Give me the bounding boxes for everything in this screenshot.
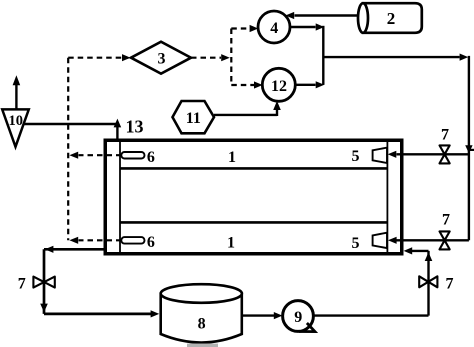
svg-text:8: 8 [198, 316, 206, 333]
arrowhead left at vessel outlet corner [45, 246, 54, 253]
svg-text:1: 1 [228, 149, 236, 166]
port 6 oval (top) [121, 152, 144, 159]
wire: right riser vertical [468, 56, 470, 240]
svg-text:5: 5 [352, 235, 360, 252]
wire: hexagon 11 to circle 12 [214, 110, 277, 117]
arrowhead right into circle 12 [254, 81, 263, 88]
dashed signal line: top port 6 to trunk [79, 154, 122, 156]
wire: manifold to right riser [323, 56, 459, 58]
svg-text:9: 9 [294, 309, 302, 326]
wire: cylinder 2 to circle 4 [295, 14, 359, 16]
svg-text:7: 7 [442, 212, 450, 229]
arrowhead right into pump 9 [274, 312, 283, 319]
arrowhead up on discharge riser [425, 252, 433, 261]
channel divider line (bottom channel top) [120, 221, 387, 224]
wire: pump discharge riser into vessel bottom right [408, 251, 429, 316]
svg-text:7: 7 [18, 276, 26, 293]
arrowhead right at riser top [460, 54, 469, 61]
controller circle 12 [262, 68, 295, 101]
svg-text:2: 2 [387, 9, 396, 28]
dashed signal line: diamond 3 to controller trunk [191, 57, 221, 59]
valve 7 (bottom left) [33, 277, 54, 288]
dashed signal line: controller trunk vertical [230, 29, 232, 86]
arrowhead right into circle 4 [250, 25, 259, 32]
arrowhead right into tank 8 [151, 310, 160, 317]
arrowhead left into bottom nozzle 5 [388, 237, 397, 244]
valve 7 (bottom right) [419, 276, 437, 287]
svg-text:5: 5 [352, 148, 360, 165]
dashed signal line: branch to circle 12 [231, 84, 254, 86]
svg-text:6: 6 [147, 234, 155, 251]
arrowhead right at manifold (from 4) [316, 23, 325, 30]
arrowhead left at trunk (top port) [69, 152, 78, 159]
nozzle 5 (bottom) [373, 233, 387, 248]
arrowhead left at trunk (bottom port) [69, 237, 78, 244]
svg-text:6: 6 [147, 149, 155, 166]
controller circle 4 [258, 11, 290, 43]
pump 9 [283, 301, 315, 332]
hexagon 11 [173, 101, 215, 133]
vessel inner wall left [119, 141, 121, 253]
wire: tank 8 to pump 9 [242, 314, 274, 316]
arrowhead down on drain line [40, 304, 48, 313]
arrowhead up at port 13 corner [114, 119, 122, 128]
svg-text:4: 4 [270, 20, 278, 37]
wire: circle 4 to manifold [290, 26, 316, 28]
arrowhead right at controller trunk [221, 54, 230, 61]
arrowhead left into circle 4 [285, 12, 294, 19]
svg-text:10: 10 [9, 113, 24, 129]
svg-text:7: 7 [446, 276, 454, 293]
nozzle 5 (top) [373, 148, 387, 163]
wire: vent exhaust line up [15, 85, 17, 110]
svg-text:12: 12 [271, 78, 287, 95]
arrowhead down on riser at junction [465, 145, 472, 153]
arrowhead right into diamond 3 [122, 54, 131, 61]
arrowhead up of vent [13, 75, 21, 85]
svg-text:3: 3 [158, 51, 166, 68]
arrowhead left into top nozzle 5 [388, 151, 397, 158]
dashed signal line: bottom port 6 to trunk [79, 239, 122, 241]
arrowhead left into vessel corner [404, 247, 413, 254]
arrowhead up into circle 12 [273, 101, 281, 110]
dashed signal line: branch to circle 4 [231, 27, 249, 29]
svg-text:7: 7 [441, 127, 449, 144]
valve 7 (top right) [440, 145, 450, 163]
wire: stub to image edge [469, 149, 474, 151]
channel divider line (top channel bottom) [120, 167, 387, 170]
wire: riser to top nozzle 5 (through valve 7) [397, 153, 469, 155]
svg-text:11: 11 [186, 110, 201, 127]
svg-text:13: 13 [126, 116, 144, 136]
port 6 oval (bottom) [121, 237, 144, 244]
scan smudge under tank [187, 344, 218, 347]
diamond 3 [131, 42, 191, 74]
wire: pump 9 outlet [314, 314, 429, 316]
membrane module vessel outer shell [105, 140, 402, 254]
wire: vessel bottom left out through valve to tank [44, 249, 153, 314]
wire: line from port 13 up and left to vent triangle [20, 124, 117, 141]
wire: circle 12 to manifold [295, 84, 315, 86]
tank 8 [161, 284, 242, 342]
valve 7 (right, second) [440, 231, 450, 249]
gas cylinder 2 [358, 3, 422, 33]
vessel inner wall right [386, 141, 388, 253]
wire: manifold vertical [322, 26, 324, 85]
wire: riser to bottom nozzle 5 (through valve 7) [397, 239, 469, 241]
dashed signal line: vertical trunk left [67, 58, 69, 241]
vent triangle 10 [2, 109, 29, 146]
arrowhead right at manifold (from 12) [316, 81, 325, 88]
dashed signal line: trunk to diamond 3 [68, 57, 122, 59]
svg-text:1: 1 [227, 235, 235, 252]
